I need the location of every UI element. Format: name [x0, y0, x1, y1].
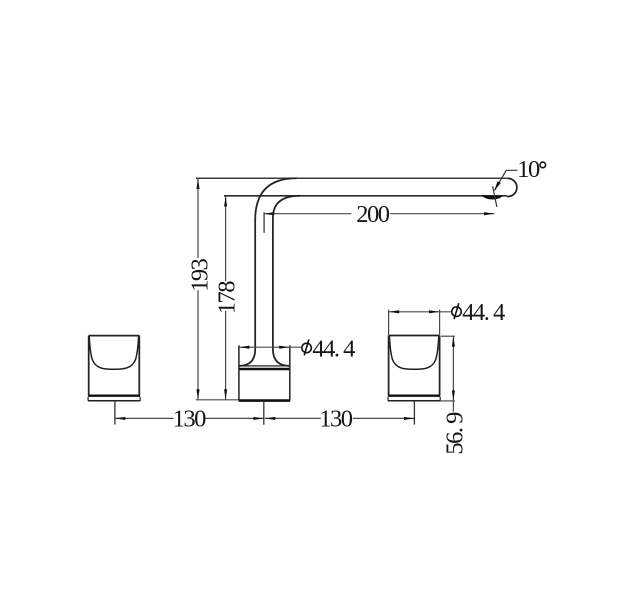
svg-text:44. 4: 44. 4 [462, 299, 505, 326]
right handle inner recess curve [389, 336, 438, 369]
baseline extension line under dims [196, 399, 239, 401]
right 130 left arrow [265, 417, 275, 420]
phi symbol right [452, 307, 462, 317]
dim 193 bottom arrow [196, 389, 199, 399]
base right side [289, 345, 291, 400]
svg-text:130: 130 [319, 406, 353, 433]
dim 200 start tick [263, 212, 265, 233]
spout bottom tube line / 178 extension line [224, 195, 507, 197]
dim 193 line lower segment [197, 290, 199, 399]
left handle base band left side [87, 397, 89, 401]
right handle left edge [388, 336, 390, 396]
dim 178 top arrow [224, 196, 227, 206]
base bottom thick line [239, 399, 291, 402]
dim phi44.4 right extension right [439, 310, 441, 335]
right handle bottom thick line [388, 395, 440, 397]
spout top outline / 193 extension line [196, 177, 507, 179]
spout tip rounded cap [507, 178, 517, 196]
left 130 dim line left segment [115, 417, 174, 419]
dim 56.9 bottom extension line [440, 400, 455, 402]
right handle top line [389, 335, 440, 337]
10 degree leader line [495, 170, 518, 190]
left handle base band right side [139, 397, 141, 401]
dim 200 line right segment [390, 213, 494, 215]
left 130 dim line right segment [204, 417, 263, 419]
base right flare fillet [273, 349, 290, 366]
left handle right edge [138, 336, 140, 396]
right 130 dim line right segment [353, 417, 414, 419]
dim 56.9 bottom arrow [452, 391, 455, 401]
right 130 dim line left segment [265, 417, 321, 419]
svg-text:200: 200 [356, 201, 390, 228]
right handle base band bottom [388, 400, 440, 402]
right handle base band left side [387, 397, 389, 401]
right handle center drop line [413, 401, 415, 425]
dim 56.9 line [452, 336, 454, 411]
spout inner bend curve [273, 196, 300, 218]
dim 178 bottom arrow [224, 389, 227, 399]
spout tip aerator wedge [482, 196, 502, 199]
dim phi44.4 right extension left [388, 310, 390, 335]
dim phi44.4 right line [389, 311, 451, 313]
svg-text:178: 178 [213, 281, 240, 315]
degree symbol circle [540, 162, 546, 168]
spout riser right line [272, 218, 274, 350]
left handle top line [89, 335, 140, 337]
base left side [238, 345, 240, 400]
left handle inner recess curve [89, 336, 138, 369]
spout outer bend curve [255, 178, 296, 220]
left handle left edge [88, 336, 90, 396]
left 130 right arrow [253, 417, 263, 420]
svg-text:44. 4: 44. 4 [312, 335, 355, 362]
dim 200 left arrow [264, 212, 274, 215]
dim phi44.4 center left arrow [239, 346, 249, 349]
svg-text:10: 10 [517, 156, 540, 183]
svg-text:193: 193 [186, 258, 213, 292]
spout riser left line [254, 220, 256, 350]
spout tip tilted extension tick [493, 186, 497, 207]
dim 193 line upper segment [197, 179, 199, 258]
dim phi44.4 center line [239, 346, 301, 348]
left handle base band bottom [88, 400, 140, 402]
dim 56.9 top arrow [452, 336, 455, 346]
base collar thin line [239, 365, 290, 367]
base collar thick line [239, 368, 290, 371]
svg-text:56. 9: 56. 9 [442, 412, 469, 455]
phi symbol center [302, 343, 312, 353]
svg-text:130: 130 [173, 406, 207, 433]
dim 178 line upper segment [225, 196, 227, 281]
left 130 left arrow [115, 417, 125, 420]
dim 200 line left segment [264, 213, 351, 215]
10 degree leader arrowhead [494, 181, 501, 191]
left handle center drop line [114, 401, 116, 424]
dim 178 line lower segment [225, 311, 227, 400]
dim phi44.4 right right arrow [429, 310, 439, 313]
left handle bottom thick line [88, 395, 140, 397]
center drop line below base [263, 401, 265, 425]
dim 200 right arrow [484, 212, 494, 215]
dim 193 top arrow [196, 179, 199, 189]
right 130 right arrow [404, 417, 414, 420]
dim phi44.4 right left arrow [389, 310, 399, 313]
right handle right edge [439, 336, 441, 396]
dim 56.9 top extension line [441, 335, 455, 337]
dim phi44.4 center right arrow [279, 346, 289, 349]
base left flare fillet [239, 349, 255, 366]
right handle base band right side [439, 397, 441, 401]
